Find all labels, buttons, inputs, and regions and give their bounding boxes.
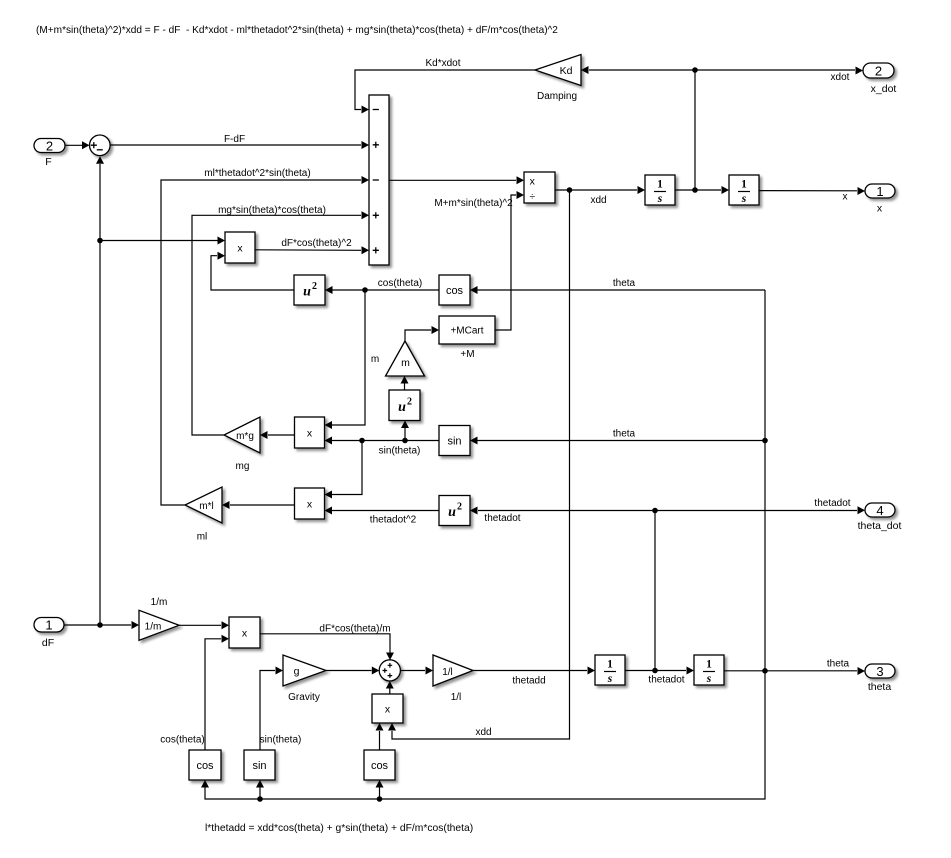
svg-text:s: s xyxy=(741,193,747,205)
wire thetadd 1/l to Integrator3 xyxy=(473,670,587,672)
svg-text:2: 2 xyxy=(407,396,412,407)
product x (dF*cos^2 path) xyxy=(225,232,255,263)
wire thetadot branch up from integrator chain xyxy=(654,511,656,671)
integrator 3 (thetadd to thetadot) xyxy=(595,655,625,685)
wire mg gain output to Sum block input 4 xyxy=(192,215,361,435)
trigonometric function sin (bottom) xyxy=(244,750,275,780)
svg-text:÷: ÷ xyxy=(529,190,535,202)
sum junction Sum1 xyxy=(90,135,111,156)
svg-text:dF*cos(theta)/m: dF*cos(theta)/m xyxy=(319,624,390,635)
svg-text:cos: cos xyxy=(196,760,214,772)
junction xdot branch xyxy=(692,187,698,193)
junction on xdot feedback wire xyxy=(692,67,698,73)
svg-text:thetadot: thetadot xyxy=(648,675,684,686)
svg-text:dF*cos(theta)^2: dF*cos(theta)^2 xyxy=(281,238,352,249)
svg-text:sin: sin xyxy=(252,760,266,772)
svg-text:Kd*xdot: Kd*xdot xyxy=(425,58,460,69)
junction xdd branch xyxy=(567,187,573,193)
wire cos3 up to bottom product input xyxy=(379,731,381,750)
wire dF vertical branch to product and Sum1 xyxy=(100,241,218,626)
svg-text:cos(theta): cos(theta) xyxy=(160,735,204,746)
inport 1 dF xyxy=(34,618,64,633)
svg-text:F-dF: F-dF xyxy=(224,134,245,145)
junction thetadot split xyxy=(652,508,658,514)
svg-text:u: u xyxy=(448,505,456,520)
wire m gain output to MCart bias xyxy=(405,330,431,341)
svg-text:xdd: xdd xyxy=(475,727,491,738)
svg-text:2: 2 xyxy=(46,138,53,153)
svg-text:x: x xyxy=(307,427,313,439)
wire dF*cos(theta)^2 product to Sum block input 5 xyxy=(255,249,361,252)
wire thetadot to outport theta_dot xyxy=(655,510,857,512)
wire xdd branch down to bottom product xyxy=(392,190,570,739)
wire product xmg to mg gain xyxy=(268,434,295,436)
svg-text:1: 1 xyxy=(657,179,663,191)
wire cos(theta) bottom up to product xdf bottom input xyxy=(205,639,221,750)
svg-text:x: x xyxy=(385,703,391,715)
wire Sum2 output to 1/l gain xyxy=(400,670,425,672)
svg-text:dF: dF xyxy=(42,637,54,649)
math function u^2 (thetadot squared) xyxy=(439,496,470,526)
integrator 1 (xdd to xdot) xyxy=(645,175,675,205)
trigonometric function cos (bottom left) xyxy=(189,750,221,780)
outport 1 x xyxy=(865,184,895,198)
svg-text:M+m*sin(theta)^2: M+m*sin(theta)^2 xyxy=(434,198,513,209)
svg-text:mg: mg xyxy=(236,461,250,472)
svg-text:2: 2 xyxy=(312,281,317,292)
wire sin(theta) up into u2 block xyxy=(404,428,406,441)
trigonometric function sin xyxy=(439,426,470,456)
svg-text:1/m: 1/m xyxy=(145,621,162,632)
svg-text:theta: theta xyxy=(613,278,636,289)
svg-text:m: m xyxy=(401,357,410,369)
wire theta branch up to trig blocks xyxy=(764,290,766,671)
gain Gravity g triangle xyxy=(283,655,326,686)
svg-text:x: x xyxy=(237,242,243,254)
svg-text:xdd: xdd xyxy=(590,195,606,206)
svg-text:g: g xyxy=(294,666,300,678)
svg-text:1/l: 1/l xyxy=(442,667,453,678)
wire MCart bias output up to Product-divide divide input xyxy=(495,195,516,330)
svg-text:cos: cos xyxy=(371,760,389,772)
svg-text:x: x xyxy=(307,498,313,510)
svg-text:sin: sin xyxy=(447,436,461,448)
wire theta Integrator4 to outport theta xyxy=(724,670,857,672)
svg-text:1/m: 1/m xyxy=(151,597,168,608)
svg-text:x_dot: x_dot xyxy=(871,83,897,95)
gain Kd Damping triangle xyxy=(535,55,581,86)
svg-text:u: u xyxy=(398,400,406,415)
wire xdot to outport x_dot xyxy=(695,69,855,71)
wire theta up into sin2 xyxy=(259,788,261,800)
svg-text:Damping: Damping xyxy=(537,91,577,102)
svg-text:3: 3 xyxy=(876,664,883,679)
gain m*l triangle xyxy=(185,487,222,523)
math function u^2 (cos squared) xyxy=(294,275,325,305)
svg-text:theta: theta xyxy=(827,659,850,670)
junction theta branch at sin wire xyxy=(762,438,768,444)
svg-text:thetadd: thetadd xyxy=(512,676,545,687)
svg-text:m*g: m*g xyxy=(236,431,254,442)
wire product xml to ml gain xyxy=(230,504,295,506)
product x (mg path) xyxy=(295,417,325,448)
wire ml gain output to Sum block input 3 xyxy=(161,180,361,505)
trigonometric function cos (bottom right) xyxy=(364,750,395,780)
wire cos(theta) branch down to product xmg top input xyxy=(332,290,366,425)
svg-text:m*l: m*l xyxy=(199,501,213,512)
svg-text:1: 1 xyxy=(607,659,613,671)
wire sin output to xmg bottom input xyxy=(332,440,440,442)
svg-text:x: x xyxy=(843,192,848,203)
svg-text:4: 4 xyxy=(876,503,883,518)
svg-text:cos: cos xyxy=(446,285,464,297)
wire theta branch down and across bottom xyxy=(205,671,765,799)
svg-text:x: x xyxy=(242,627,248,639)
svg-text:s: s xyxy=(706,673,712,685)
wire thetadot to u2 input xyxy=(478,510,655,512)
junction theta main branch xyxy=(762,668,768,674)
product x (dF/m * cos) xyxy=(229,617,260,648)
wire dF inport to 1/m gain xyxy=(64,624,131,626)
gain m*g triangle xyxy=(224,417,260,453)
svg-text:sin(theta): sin(theta) xyxy=(379,446,421,457)
wire x Integrator2 to outport x xyxy=(759,190,857,192)
wire xdot branch up to Kd and x_dot outport xyxy=(589,70,695,190)
wire theta into cos block xyxy=(477,289,765,291)
wire sin(theta) bottom up to Gravity gain xyxy=(260,671,275,751)
svg-text:F: F xyxy=(45,156,51,168)
svg-text:ml*thetadot^2*sin(theta): ml*thetadot^2*sin(theta) xyxy=(204,168,310,179)
svg-text:(M+m*sin(theta)^2)*xdd = F - d: (M+m*sin(theta)^2)*xdd = F - dF - Kd*xdo… xyxy=(36,25,558,36)
svg-text:thetadot^2: thetadot^2 xyxy=(370,515,417,526)
wire F-dF from Sum1 to Sum block input 2 xyxy=(110,144,361,146)
wire u2 output up into m gain xyxy=(404,384,406,391)
integrator 4 (thetadot to theta) xyxy=(694,655,724,685)
wire u2 cos^2 output to product top path xyxy=(211,256,294,290)
svg-text:u: u xyxy=(303,285,311,300)
wire 1/m output to product xdf top input xyxy=(179,624,221,626)
svg-text:s: s xyxy=(657,193,663,205)
product divide block xyxy=(524,172,555,203)
svg-text:2: 2 xyxy=(457,502,462,513)
gain m triangle xyxy=(386,341,425,376)
svg-text:cos(theta): cos(theta) xyxy=(378,278,422,289)
junction sin(theta) to u2 xyxy=(402,438,408,444)
svg-text:x: x xyxy=(530,175,536,187)
math function u^2 (sin squared) xyxy=(389,390,420,421)
junction cos(theta) branch xyxy=(362,287,368,293)
svg-text:1: 1 xyxy=(876,184,883,199)
svg-text:theta: theta xyxy=(613,429,636,440)
wire bottom product up to Sum2 bottom xyxy=(389,689,391,695)
svg-text:sin(theta): sin(theta) xyxy=(260,735,302,746)
svg-text:+M: +M xyxy=(460,349,474,360)
gain 1/l triangle xyxy=(433,655,473,686)
junction theta to sin2 xyxy=(257,796,263,802)
junction dF lower branch xyxy=(97,622,103,628)
junction theta to cos3 xyxy=(377,796,383,802)
wire xdot Integrator1 to Integrator2 xyxy=(675,189,721,191)
wire thetadot Integrator3 to Integrator4 xyxy=(625,670,686,672)
svg-text:Kd: Kd xyxy=(560,65,573,77)
wire Gravity output to Sum2 left xyxy=(326,670,372,672)
svg-text:x: x xyxy=(877,203,883,215)
bias block +MCart xyxy=(439,316,495,344)
svg-text:l*thetadd = xdd*cos(theta) + g: l*thetadd = xdd*cos(theta) + g*sin(theta… xyxy=(205,823,473,834)
svg-text:mg*sin(theta)*cos(theta): mg*sin(theta)*cos(theta) xyxy=(218,205,326,216)
svg-text:theta: theta xyxy=(868,681,892,693)
svg-text:1: 1 xyxy=(45,618,52,633)
svg-text:theta_dot: theta_dot xyxy=(858,520,902,532)
wire sin(theta) down to product xml top input xyxy=(332,441,363,495)
svg-text:thetadot: thetadot xyxy=(484,513,520,524)
svg-text:+MCart: +MCart xyxy=(450,326,483,337)
junction thetadot at integrators xyxy=(652,668,658,674)
wire F inport to Sum1 xyxy=(65,144,83,146)
junction sin(theta) to xml xyxy=(359,438,365,444)
wire theta into sin block xyxy=(477,440,765,442)
outport 4 theta_dot xyxy=(865,503,895,517)
sum junction Sum2 xyxy=(379,660,400,681)
svg-text:xdot: xdot xyxy=(831,72,850,83)
svg-text:Gravity: Gravity xyxy=(288,692,320,703)
trigonometric function cos xyxy=(439,275,470,305)
wire dF branch up into Sum1 bottom xyxy=(99,164,101,241)
integrator 2 (xdot to x) xyxy=(729,175,759,205)
inport 2 F xyxy=(34,139,65,153)
outport 3 theta xyxy=(865,664,895,678)
wire thetadot^2 from u2 to product xml bottom input xyxy=(332,510,440,512)
svg-text:m: m xyxy=(371,354,379,365)
svg-text:thetadot: thetadot xyxy=(814,498,850,509)
svg-text:1/l: 1/l xyxy=(451,692,462,703)
product x (bottom, xdd*cos) xyxy=(372,694,403,723)
svg-text:2: 2 xyxy=(875,63,882,78)
wire dF*cos(theta)/m to Sum2 top xyxy=(260,634,390,653)
wire xdd from Product-divide to Integrator1 xyxy=(555,189,637,191)
product x (ml path) xyxy=(295,488,325,519)
wire Sum block output to Product-divide x input xyxy=(389,179,516,181)
svg-text:ml: ml xyxy=(197,532,208,543)
svg-text:1: 1 xyxy=(741,179,747,191)
Sum block Add xyxy=(369,95,389,265)
junction dF upper branch xyxy=(97,238,103,244)
wire cos output to u2 input xyxy=(332,289,439,291)
outport 2 x_dot xyxy=(863,63,894,78)
wire Kd gain output to Sum block input 1 xyxy=(355,70,535,110)
svg-text:s: s xyxy=(607,673,613,685)
gain 1/m triangle xyxy=(139,610,179,640)
wire theta up into cos3 xyxy=(379,788,381,800)
svg-text:1: 1 xyxy=(706,659,712,671)
